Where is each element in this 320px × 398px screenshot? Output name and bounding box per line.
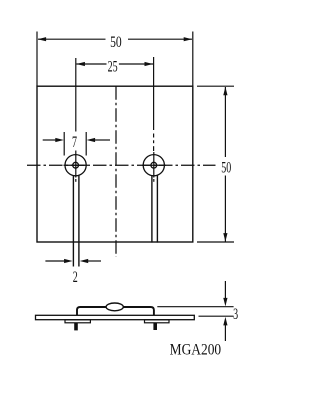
dim 2: right arrowhead (pointing left) bbox=[80, 259, 89, 263]
right hole vertical center line through circle bbox=[153, 152, 155, 178]
side view: left tab under plate bbox=[65, 320, 90, 323]
right hole circle bbox=[143, 155, 164, 176]
side view: base plate bar bbox=[36, 315, 195, 319]
dim 50 top: dimension line bbox=[38, 38, 106, 40]
svg-text:7: 7 bbox=[72, 134, 77, 151]
svg-text:25: 25 bbox=[108, 58, 118, 75]
dim 25: right arrowhead bbox=[145, 62, 154, 66]
dim 3: top extension line bbox=[157, 306, 233, 308]
right hole center line dashes above circle bbox=[153, 134, 155, 138]
right hole center ring bbox=[151, 162, 157, 168]
dim 7: left arrowhead (pointing right) bbox=[55, 138, 64, 142]
dim 3: lower leader line bbox=[224, 324, 226, 341]
left hole circle bbox=[65, 155, 86, 176]
dim 2: right leader line bbox=[88, 260, 101, 262]
side view: right lead pin bbox=[153, 323, 157, 330]
dim 3: upper arrowhead (pointing down) bbox=[223, 298, 227, 307]
dim 7: left extension line bbox=[63, 132, 65, 156]
dim 7: left leader line bbox=[43, 139, 57, 141]
right lead line (left edge) bbox=[151, 175, 153, 242]
side view: body outline bbox=[77, 307, 154, 315]
side view: right tab under plate bbox=[145, 320, 170, 323]
left lead line (right edge) bbox=[78, 175, 80, 266]
dim 3: upper leader line bbox=[224, 281, 226, 300]
right lead line (right edge) bbox=[156, 175, 158, 242]
vertical plate center line (dash-dot) bbox=[115, 86, 117, 257]
dim 3: bottom extension line bbox=[199, 315, 234, 317]
dim 50 right: top extension line bbox=[197, 85, 234, 87]
side view: left lead pin bbox=[74, 323, 78, 331]
dim 50 top: left extension line bbox=[36, 32, 38, 87]
left hole center ring bbox=[73, 162, 79, 168]
plate outline (top view, 50 x 50) bbox=[37, 86, 193, 242]
dim 50 right: bottom extension line bbox=[197, 241, 234, 243]
dim 3: lower arrowhead (pointing up) bbox=[223, 317, 227, 326]
dim 2: left leader line bbox=[45, 260, 65, 262]
right hole center line dash below circle bbox=[153, 179, 155, 182]
svg-text:3: 3 bbox=[233, 306, 238, 323]
dim 50 right: dimension line bbox=[224, 87, 226, 157]
dim 50 top: right extension line bbox=[192, 32, 194, 87]
dim 7: right leader line bbox=[94, 139, 110, 141]
svg-text:50: 50 bbox=[110, 34, 122, 51]
crosshair solid segment through right hole bbox=[142, 164, 166, 166]
dim 50 right: bottom arrowhead (pointing down) bbox=[223, 233, 227, 242]
dim 50 top: right arrowhead bbox=[184, 37, 193, 41]
dim 2: left arrowhead (pointing right) bbox=[64, 259, 73, 263]
dim 50 right: top arrowhead (pointing up) bbox=[223, 87, 227, 96]
left lead line (left edge) bbox=[72, 175, 74, 266]
left hole vertical center line through circle bbox=[75, 151, 77, 178]
crosshair solid segment through left hole bbox=[64, 164, 88, 166]
dim 25: dimension line bbox=[76, 63, 106, 65]
horizontal hole center line (dash-dot) bbox=[27, 164, 216, 166]
svg-text:2: 2 bbox=[73, 269, 78, 286]
svg-text:MGA200: MGA200 bbox=[170, 342, 222, 359]
svg-text:50: 50 bbox=[221, 159, 231, 176]
dim 7: right arrowhead (pointing left) bbox=[87, 138, 96, 142]
right hole vertical center line (upper solid, also 25-dim extension) bbox=[153, 57, 155, 130]
left hole center line dash below circle bbox=[75, 179, 77, 182]
dim 50 top: left arrowhead bbox=[38, 37, 47, 41]
left hole vertical center line (upper solid, also 25-dim extension) bbox=[75, 58, 77, 132]
dim 7: right extension line bbox=[85, 132, 87, 156]
side view: oval boss bbox=[106, 303, 123, 311]
dim 25: left arrowhead bbox=[76, 62, 85, 66]
